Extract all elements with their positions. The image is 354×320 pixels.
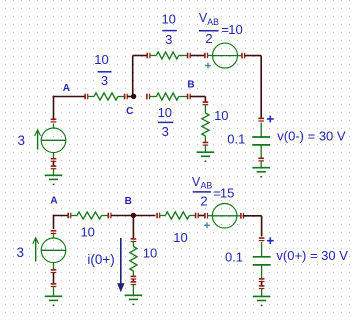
svg-text:v(0+) = 30 V: v(0+) = 30 V — [276, 248, 348, 263]
svg-text:AB: AB — [207, 17, 219, 27]
svg-text:3: 3 — [162, 124, 169, 139]
svg-text:AB: AB — [201, 181, 213, 191]
svg-text:A: A — [63, 83, 70, 94]
svg-text:C: C — [126, 106, 133, 117]
svg-text:10: 10 — [158, 105, 172, 120]
svg-text:10: 10 — [80, 225, 94, 240]
svg-text:i(0+): i(0+) — [87, 252, 114, 267]
svg-text:3: 3 — [101, 73, 108, 88]
svg-text:B: B — [125, 196, 132, 207]
svg-text:10: 10 — [214, 108, 228, 123]
svg-text:B: B — [187, 79, 194, 90]
svg-text:10: 10 — [228, 22, 242, 37]
svg-text:2: 2 — [205, 31, 212, 46]
svg-text:10: 10 — [173, 230, 187, 245]
svg-text:2: 2 — [200, 193, 207, 208]
svg-text:0.1: 0.1 — [227, 131, 245, 146]
svg-text:10: 10 — [94, 52, 108, 67]
svg-text:v(0-) = 30 V: v(0-) = 30 V — [277, 128, 346, 143]
svg-text:10: 10 — [161, 12, 175, 27]
svg-text:3: 3 — [165, 32, 172, 47]
svg-text:10: 10 — [143, 246, 157, 261]
svg-text:0.1: 0.1 — [225, 249, 243, 264]
svg-text:3: 3 — [17, 133, 25, 148]
svg-text:3: 3 — [17, 245, 25, 260]
svg-text:A: A — [50, 195, 57, 206]
svg-text:15: 15 — [220, 186, 234, 201]
svg-text:V: V — [192, 175, 201, 189]
